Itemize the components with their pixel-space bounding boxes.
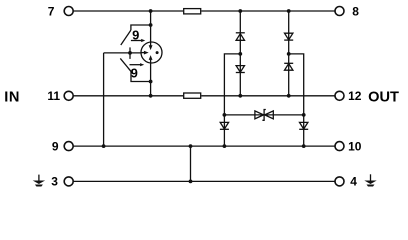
wire gas tube column lower: [150, 63, 152, 96]
wire center electrode: [104, 47, 141, 59]
wire suppressor row right down to rail 9-10: [303, 115, 305, 146]
junction left column mid: [238, 52, 242, 56]
terminal 7: [64, 7, 73, 16]
wire right step from mid junction down to suppressor row: [289, 54, 304, 115]
svg-text:IN: IN: [4, 89, 20, 105]
svg-text:3: 3: [51, 175, 58, 189]
diode D2: [236, 66, 245, 73]
thermal disconnect switch lower: [120, 58, 150, 81]
terminal 8: [335, 7, 344, 16]
wire center electrode to rail 9-10: [103, 53, 105, 146]
actuation arrow upper: [131, 39, 145, 42]
svg-text:9: 9: [52, 139, 59, 153]
wire rail 3-4: [73, 180, 335, 182]
thermal disconnect switch upper: [121, 25, 151, 45]
diode D4: [284, 63, 293, 70]
fuse F1: [184, 9, 201, 14]
junction lower thermal contact on column: [149, 80, 153, 84]
junction rail 7-8 / gas tube column: [149, 9, 153, 13]
diode D6: [299, 122, 308, 129]
wire link rail 9-10 to rail 3-4: [190, 146, 192, 181]
diode D1: [236, 33, 245, 41]
wire left diode column: [239, 11, 241, 96]
terminal 12: [335, 91, 344, 100]
junction suppressor row left: [223, 113, 227, 117]
junction rail 9-10 / right: [302, 144, 306, 148]
junction rail 9-10 / left: [223, 144, 227, 148]
junction upper thermal contact on column: [149, 23, 153, 27]
svg-text:OUT: OUT: [368, 89, 399, 105]
junction rail 11-12 / right column: [287, 94, 291, 98]
junction rail 11-12 / gas tube column: [149, 94, 153, 98]
wire rail 9-10: [73, 145, 335, 147]
junction center electrode: [128, 51, 132, 55]
terminal 11: [64, 91, 73, 100]
wire suppressor row: [224, 114, 303, 116]
svg-text:4: 4: [350, 175, 357, 189]
wire rail 11-12 left segment: [73, 95, 183, 97]
svg-text:12: 12: [348, 89, 362, 103]
bidirectional suppressor diode D7: [255, 110, 273, 121]
svg-text:11: 11: [47, 89, 60, 103]
diode D3: [284, 33, 293, 40]
junction rail 7-8 / left column: [238, 9, 242, 13]
wire rail 7-8 left segment: [73, 10, 183, 12]
gas discharge tube F3: [141, 42, 162, 63]
svg-text:7: 7: [48, 4, 55, 18]
svg-text:9: 9: [131, 65, 138, 80]
terminal 9: [64, 142, 73, 151]
junction rail 11-12 / left column: [238, 94, 242, 98]
wire right diode column: [288, 11, 290, 96]
junction on rail 3-4 at link: [189, 180, 193, 184]
wire suppressor row left down to rail 9-10: [223, 115, 225, 146]
junction suppressor row right: [302, 113, 306, 117]
svg-text:8: 8: [352, 4, 359, 18]
junction rail 9-10 / center electrode wire: [102, 144, 106, 148]
wire left step from mid junction down to suppressor row: [224, 54, 240, 115]
terminal 10: [335, 142, 344, 151]
actuation arrow lower: [130, 63, 145, 66]
terminal 4: [335, 177, 344, 186]
svg-text:10: 10: [348, 139, 362, 153]
wire gas tube column upper: [150, 11, 152, 42]
wire rail 7-8 right segment: [201, 10, 335, 12]
fuse F2: [184, 93, 201, 98]
junction rail 7-8 / right column: [287, 9, 291, 13]
ground symbol at terminal 4: [364, 174, 376, 186]
ground symbol at terminal 3: [33, 175, 45, 187]
junction right column mid: [287, 52, 291, 56]
junction on rail 9-10 at link: [189, 144, 193, 148]
wire rail 11-12 right segment: [201, 95, 335, 97]
terminal 3: [64, 177, 73, 186]
diode D5: [220, 122, 229, 129]
